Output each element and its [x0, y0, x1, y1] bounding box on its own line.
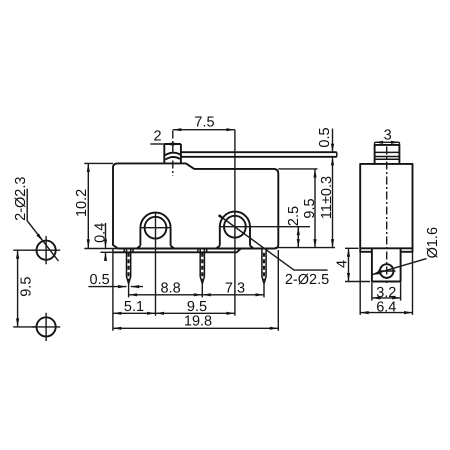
svg-text:2.5: 2.5 — [286, 206, 302, 226]
svg-text:2-Ø2.5: 2-Ø2.5 — [285, 272, 329, 288]
svg-text:0.4: 0.4 — [93, 223, 109, 243]
svg-text:10.2: 10.2 — [74, 189, 90, 217]
svg-text:6.4: 6.4 — [376, 300, 396, 316]
svg-text:Ø1.6: Ø1.6 — [425, 227, 441, 258]
svg-text:5.1: 5.1 — [124, 299, 144, 315]
svg-text:2: 2 — [153, 128, 161, 144]
svg-text:0.5: 0.5 — [317, 127, 333, 147]
svg-text:0.5: 0.5 — [90, 272, 110, 288]
svg-text:7.3: 7.3 — [225, 280, 245, 296]
svg-text:19.8: 19.8 — [184, 314, 212, 330]
svg-text:3: 3 — [384, 128, 392, 144]
svg-text:7.5: 7.5 — [194, 115, 214, 131]
svg-text:8.8: 8.8 — [161, 280, 181, 296]
svg-text:4: 4 — [334, 260, 350, 268]
svg-text:9.5: 9.5 — [302, 198, 318, 218]
svg-text:11±0.3: 11±0.3 — [319, 176, 335, 219]
svg-text:2-Ø2.3: 2-Ø2.3 — [13, 177, 29, 221]
svg-text:9.5: 9.5 — [187, 299, 207, 315]
svg-text:9.5: 9.5 — [19, 277, 35, 297]
